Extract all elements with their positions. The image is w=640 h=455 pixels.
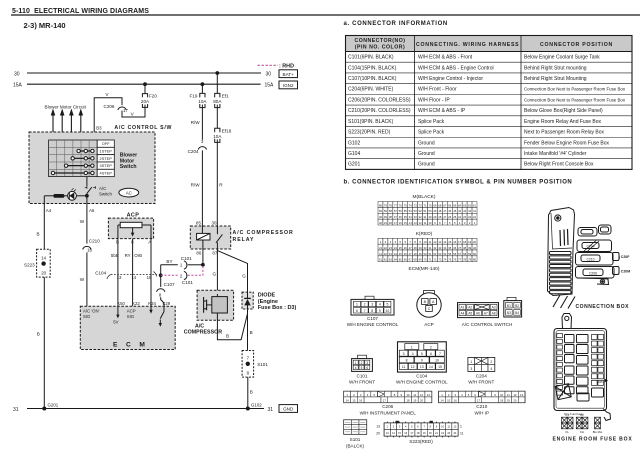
svg-text:39: 39 [384, 215, 387, 219]
A/C compressor box [184, 290, 234, 335]
A/C control switch assembly box [29, 125, 172, 204]
svg-text:S101(9PIN. BLACK): S101(9PIN. BLACK) [348, 119, 394, 125]
fuse Ef18 10A [213, 108, 231, 143]
svg-text:10: 10 [406, 393, 410, 397]
svg-text:(PIN NO. COLOR): (PIN NO. COLOR) [355, 45, 405, 51]
fuse F20 20A [141, 84, 157, 107]
svg-text:17: 17 [477, 398, 481, 402]
svg-text:C107: C107 [367, 316, 378, 321]
svg-text:20: 20 [379, 221, 382, 225]
svg-text:S223(RED): S223(RED) [409, 439, 433, 444]
svg-text:45: 45 [399, 252, 402, 256]
svg-text:60: 60 [379, 209, 382, 213]
svg-text:59: 59 [384, 209, 387, 213]
svg-text:42: 42 [384, 252, 387, 256]
svg-text:14: 14 [346, 398, 350, 402]
relay contact [216, 226, 222, 249]
label ECM(MR-140) [409, 266, 440, 272]
svg-text:78: 78 [463, 258, 466, 262]
engine room fuse box relays below [562, 413, 603, 434]
svg-text:77: 77 [458, 258, 461, 262]
svg-text:13: 13 [420, 365, 424, 369]
svg-text:15: 15 [404, 221, 407, 225]
svg-text:2: 2 [364, 303, 366, 307]
svg-text:17: 17 [394, 221, 397, 225]
connector M(BLACK) ECM pin grid [378, 194, 477, 225]
svg-text:12: 12 [513, 393, 517, 397]
svg-text:Splice Pack: Splice Pack [418, 130, 445, 136]
svg-text:79: 79 [468, 258, 471, 262]
ground G102 junction [246, 403, 262, 411]
svg-text:67: 67 [409, 258, 412, 262]
svg-text:31: 31 [424, 215, 427, 219]
blower motor circuit label [45, 104, 87, 109]
wire BY from junction through C101 pin1 [159, 259, 203, 277]
svg-text:35: 35 [404, 215, 407, 219]
svg-text:12: 12 [420, 393, 424, 397]
svg-text:C206(20PIN. COLORLESS): C206(20PIN. COLORLESS) [348, 97, 411, 103]
svg-text:16: 16 [453, 240, 456, 244]
svg-text:3: 3 [371, 303, 373, 307]
svg-text:29: 29 [433, 215, 436, 219]
svg-text:52: 52 [419, 209, 422, 213]
svg-text:W/H ECM & ABS - Engine Control: W/H ECM & ABS - Engine Control [418, 65, 494, 71]
svg-text:72: 72 [433, 258, 436, 262]
svg-text:B1: B1 [507, 304, 511, 308]
svg-text:14: 14 [440, 398, 444, 402]
svg-text:30: 30 [428, 215, 431, 219]
svg-text:1: 1 [356, 303, 358, 307]
svg-text:54: 54 [409, 209, 412, 213]
svg-text:72: 72 [419, 203, 422, 207]
svg-text:Connection Box Next to Passeng: Connection Box Next to Passenger Room Fu… [524, 87, 626, 92]
svg-text:61: 61 [473, 203, 476, 207]
svg-text:31: 31 [428, 246, 431, 250]
svg-text:27: 27 [409, 246, 412, 250]
svg-text:64: 64 [458, 203, 461, 207]
engine room fuse box label [553, 437, 633, 443]
connector B1-B4 drawing [504, 297, 522, 317]
svg-text:ECM(MR-140): ECM(MR-140) [409, 266, 440, 272]
svg-text:11: 11 [402, 365, 406, 369]
svg-text:K2: K2 [580, 413, 584, 417]
svg-text:56: 56 [399, 209, 402, 213]
junction on 15A at F20 [143, 82, 147, 86]
wire RY (ACP C to ECM K22) [125, 239, 133, 307]
svg-text:47: 47 [409, 252, 412, 256]
wire R/W from C204 to relay 85 [191, 150, 203, 226]
connector C104 drawing [396, 342, 448, 385]
svg-text:C107(10PIN. BLACK): C107(10PIN. BLACK) [348, 76, 397, 82]
A/C push switch [85, 186, 113, 196]
svg-text:A6: A6 [476, 312, 480, 316]
svg-text:80: 80 [473, 258, 476, 262]
svg-text:2: 2 [430, 345, 432, 349]
resistor (LED series) [44, 194, 67, 198]
svg-text:A5: A5 [468, 312, 472, 316]
blower motor switch grid [49, 140, 98, 177]
svg-text:32: 32 [433, 246, 436, 250]
svg-text:A7: A7 [484, 312, 488, 316]
svg-text:W/H ECM & ABS - IP: W/H ECM & ABS - IP [418, 108, 466, 114]
svg-text:40: 40 [473, 246, 476, 250]
svg-text:68: 68 [414, 258, 417, 262]
wire 86 to junction [201, 249, 205, 267]
svg-text:65: 65 [453, 203, 456, 207]
svg-text:C210: C210 [476, 404, 487, 409]
svg-text:W/H ENGINE CONTROL: W/H ENGINE CONTROL [347, 322, 399, 327]
svg-text:1: 1 [411, 345, 413, 349]
svg-text:Intake Manifold '#4' Cylinder: Intake Manifold '#4' Cylinder [524, 151, 587, 157]
svg-text:1: 1 [460, 425, 462, 429]
connector C101 pin 1 [180, 256, 192, 269]
svg-text:A1: A1 [460, 306, 464, 310]
ECM internal A/C ON SIG [83, 308, 100, 319]
connector C210 pin 16 [83, 239, 101, 253]
svg-text:26: 26 [404, 246, 407, 250]
page header title [11, 8, 640, 15]
svg-text:Ground: Ground [418, 140, 435, 146]
svg-text:14: 14 [429, 365, 433, 369]
svg-text:40: 40 [379, 215, 382, 219]
svg-text:G102: G102 [348, 140, 360, 146]
ECM internal 5V arrow [113, 306, 119, 324]
svg-text:Ground: Ground [418, 162, 435, 168]
svg-text:60: 60 [473, 252, 476, 256]
blower switch contacts 1STEP [77, 149, 94, 152]
svg-text:70: 70 [424, 258, 427, 262]
svg-text:63: 63 [389, 258, 392, 262]
svg-text:69: 69 [433, 203, 436, 207]
svg-text:4: 4 [490, 367, 492, 371]
svg-text:63: 63 [463, 203, 466, 207]
ECM box [80, 306, 175, 349]
connector C204 pin 3 [188, 139, 207, 154]
junction at A6 branch [85, 194, 89, 198]
svg-text:80: 80 [379, 203, 382, 207]
svg-text:12: 12 [433, 240, 436, 244]
svg-text:74: 74 [443, 258, 446, 262]
svg-text:18: 18 [500, 398, 504, 402]
svg-text:17: 17 [383, 398, 387, 402]
svg-text:39: 39 [468, 246, 471, 250]
svg-text:Next to Passenger Room Relay B: Next to Passenger Room Relay Box [524, 130, 605, 136]
svg-text:Behind Right Strut Mounting: Behind Right Strut Mounting [524, 76, 587, 82]
svg-text:C20F: C20F [621, 255, 630, 259]
blower motor switch label [120, 153, 137, 171]
svg-text:4: 4 [355, 366, 357, 370]
svg-text:5: 5 [386, 303, 388, 307]
svg-text:Ab5: Ab5 [598, 380, 603, 384]
ECM pin K22 [132, 301, 140, 306]
connection box illustration [548, 208, 631, 309]
connector information table [346, 36, 633, 170]
connector C206 drawing [344, 391, 432, 415]
section title 2-3) MR-140 [24, 21, 66, 30]
ECM internal K34 ground arrow [149, 306, 152, 313]
svg-text:a. CONNECTOR INFORMATION: a. CONNECTOR INFORMATION [344, 21, 448, 27]
svg-text:10: 10 [500, 393, 504, 397]
svg-text:48: 48 [438, 209, 441, 213]
svg-text:W/H Floor - IP: W/H Floor - IP [418, 97, 450, 103]
svg-text:B4: B4 [515, 311, 519, 315]
svg-text:18: 18 [463, 240, 466, 244]
svg-text:Behind Right Strut mounting: Behind Right Strut mounting [524, 65, 587, 71]
svg-text:1: 1 [470, 360, 472, 364]
svg-text:77: 77 [394, 203, 397, 207]
svg-text:34: 34 [409, 215, 412, 219]
svg-text:65: 65 [399, 258, 402, 262]
svg-text:ENGINE ROOM FUSE BOX: ENGINE ROOM FUSE BOX [553, 437, 633, 443]
svg-text:19: 19 [468, 240, 471, 244]
svg-text:A8: A8 [492, 312, 496, 316]
svg-text:36: 36 [453, 246, 456, 250]
svg-text:46: 46 [404, 252, 407, 256]
pin A6 wire [80, 196, 95, 244]
svg-text:K(RED): K(RED) [416, 231, 433, 237]
svg-text:3: 3 [366, 361, 368, 365]
connector C107 drawing [347, 296, 399, 327]
relay coil [197, 226, 210, 249]
svg-text:24: 24 [458, 215, 461, 219]
svg-text:C101(6PIN. BLACK): C101(6PIN. BLACK) [348, 55, 394, 61]
svg-text:18: 18 [406, 398, 410, 402]
svg-text:62: 62 [384, 258, 387, 262]
svg-text:6: 6 [430, 352, 432, 356]
svg-text:13: 13 [427, 393, 431, 397]
wire 5bB (ACP B to ECM K50) [111, 239, 119, 307]
svg-text:6: 6 [356, 309, 358, 313]
svg-text:4: 4 [412, 352, 414, 356]
arrow blower motor wire 3 [69, 109, 74, 141]
blower switch contacts 2STEP [71, 157, 94, 160]
svg-text:51: 51 [428, 252, 431, 256]
junction on 15A at F19 [201, 82, 205, 86]
splice S101 [242, 351, 268, 378]
wire B compressor to diode cathode [217, 313, 247, 340]
splice S223 [24, 249, 50, 277]
svg-text:12: 12 [419, 221, 422, 225]
svg-text:55: 55 [448, 252, 451, 256]
svg-text:CONNECTOR POSITION: CONNECTOR POSITION [540, 42, 613, 48]
svg-text:34: 34 [443, 246, 446, 250]
svg-text:51: 51 [424, 209, 427, 213]
wire OrB (ACP A to ECM K34) [134, 239, 151, 307]
junction on 30 at Ef1 [215, 71, 219, 75]
svg-text:44: 44 [458, 209, 461, 213]
svg-text:A4: A4 [460, 312, 464, 316]
svg-text:B3: B3 [507, 311, 511, 315]
blower switch contacts 4STEP [51, 171, 94, 174]
svg-text:4: 4 [379, 303, 381, 307]
svg-text:35: 35 [448, 246, 451, 250]
svg-text:Fender Below Engine Room Fuse: Fender Below Engine Room Fuse Box [524, 140, 610, 146]
svg-text:28: 28 [414, 246, 417, 250]
fuse F19 10A [190, 84, 208, 107]
ECM pin K29 [163, 301, 171, 306]
svg-text:41: 41 [379, 252, 382, 256]
svg-text:KL: KL [565, 430, 569, 434]
svg-text:33: 33 [414, 215, 417, 219]
svg-text:30: 30 [424, 246, 427, 250]
connector K(RED) ECM pin grid [378, 231, 477, 262]
svg-text:20: 20 [376, 431, 380, 435]
svg-text:10: 10 [435, 359, 439, 363]
svg-text:Engine Room Relay And Fuse Box: Engine Room Relay And Fuse Box [524, 119, 601, 125]
connector C104 dashed gang line pins 13 14 15 [95, 271, 157, 281]
svg-text:36: 36 [399, 215, 402, 219]
svg-text:Below Glove Box(Right Side Pan: Below Glove Box(Right Side Panel) [524, 108, 603, 114]
svg-text:10: 10 [428, 221, 431, 225]
svg-text:75: 75 [448, 258, 451, 262]
svg-text:33: 33 [438, 246, 441, 250]
node IGN2 [279, 81, 298, 89]
svg-text:W/H FRONT: W/H FRONT [468, 379, 494, 384]
svg-text:21: 21 [473, 215, 476, 219]
svg-text:2: 2 [490, 360, 492, 364]
svg-text:13: 13 [414, 221, 417, 225]
svg-text:50: 50 [428, 209, 431, 213]
svg-text:73: 73 [414, 203, 417, 207]
svg-text:C210(20PIN. COLORLESS): C210(20PIN. COLORLESS) [348, 108, 411, 114]
svg-text:23: 23 [463, 215, 466, 219]
wire G branch to diode [217, 251, 247, 293]
svg-text:76: 76 [453, 258, 456, 262]
svg-text:K1: K1 [565, 413, 569, 417]
svg-text:C206: C206 [589, 271, 597, 275]
svg-text:12: 12 [411, 365, 415, 369]
svg-text:ACP: ACP [424, 322, 433, 327]
svg-text:W/H INSTRUMENT PANEL: W/H INSTRUMENT PANEL [360, 411, 417, 416]
svg-text:46: 46 [448, 209, 451, 213]
svg-text:1: 1 [355, 361, 357, 365]
svg-text:75: 75 [404, 203, 407, 207]
svg-text:16: 16 [399, 221, 402, 225]
svg-text:55: 55 [404, 209, 407, 213]
node GND [279, 405, 298, 413]
svg-text:68: 68 [438, 203, 441, 207]
wire C107 to ECM K29 [161, 297, 164, 306]
svg-text:Below Engine Coolant Surge Tan: Below Engine Coolant Surge Tank [524, 55, 600, 61]
connector A/C control switch drawing [458, 303, 513, 328]
wire R/W from F19 to C204 [191, 108, 203, 140]
wire 30 bus [14, 71, 271, 77]
svg-text:13: 13 [376, 425, 380, 429]
svg-text:50: 50 [424, 252, 427, 256]
wire 15A bus [13, 83, 274, 89]
wire B from S223 to ground bus [37, 277, 45, 408]
wire V from C206 to pin B3 [94, 92, 122, 140]
svg-text:57: 57 [458, 252, 461, 256]
svg-text:58: 58 [389, 209, 392, 213]
svg-text:66: 66 [448, 203, 451, 207]
svg-text:C: C [428, 307, 431, 311]
svg-text:58: 58 [463, 252, 466, 256]
engine room fuse box illustration [554, 314, 611, 421]
svg-text:S223(20PIN. RED): S223(20PIN. RED) [348, 130, 391, 136]
svg-text:66: 66 [404, 258, 407, 262]
svg-text:27: 27 [443, 215, 446, 219]
svg-text:B2: B2 [515, 304, 519, 308]
svg-text:C104: C104 [416, 373, 427, 378]
svg-text:16: 16 [454, 398, 458, 402]
svg-text:56: 56 [453, 252, 456, 256]
svg-text:47: 47 [443, 209, 446, 213]
connector ACP drawing [417, 291, 441, 328]
svg-text:5: 5 [421, 352, 423, 356]
svg-text:43: 43 [389, 252, 392, 256]
svg-text:S101: S101 [350, 437, 361, 442]
svg-text:C104(15PIN. BLACK): C104(15PIN. BLACK) [348, 65, 397, 71]
svg-text:9: 9 [421, 359, 423, 363]
svg-text:W/H FRONT: W/H FRONT [349, 379, 375, 384]
svg-text:32: 32 [419, 215, 422, 219]
svg-text:28: 28 [438, 215, 441, 219]
svg-text:15: 15 [352, 398, 356, 402]
svg-text:53: 53 [438, 252, 441, 256]
svg-text:16: 16 [359, 398, 363, 402]
svg-text:69: 69 [419, 258, 422, 262]
AC indicator oval [119, 188, 139, 197]
svg-text:21: 21 [379, 246, 382, 250]
connector C206 pin 17 [104, 104, 129, 113]
wire compressor through [216, 294, 218, 297]
wire B S101 to G102 [248, 377, 253, 408]
svg-text:11: 11 [460, 431, 464, 435]
svg-text:8: 8 [371, 309, 373, 313]
svg-text:48: 48 [414, 252, 417, 256]
ACP sensor box [108, 213, 153, 245]
svg-text:49: 49 [419, 252, 422, 256]
svg-text:W/H ECM & ABS - Front: W/H ECM & ABS - Front [418, 55, 473, 61]
svg-text:3: 3 [470, 367, 472, 371]
svg-text:W/H IP: W/H IP [475, 411, 490, 416]
svg-text:61: 61 [379, 258, 382, 262]
wire B diode to S101 [248, 309, 253, 351]
wire V from F20 to C206 [122, 107, 145, 117]
svg-text:22: 22 [384, 246, 387, 250]
svg-text:C206: C206 [382, 404, 393, 409]
svg-text:37: 37 [394, 215, 397, 219]
ECM internal K29 switch to ground [159, 306, 164, 327]
svg-text:71: 71 [424, 203, 427, 207]
svg-text:26: 26 [448, 215, 451, 219]
svg-text:29: 29 [419, 246, 422, 250]
svg-text:10: 10 [386, 309, 390, 313]
svg-text:14: 14 [443, 240, 446, 244]
svg-text:CONNECTION BOX: CONNECTION BOX [576, 304, 630, 310]
svg-text:11: 11 [413, 393, 416, 397]
svg-text:20: 20 [473, 240, 476, 244]
svg-text:54: 54 [443, 252, 446, 256]
svg-text:Ground: Ground [418, 151, 435, 157]
svg-text:A3: A3 [492, 306, 496, 310]
connector C204 drawing [468, 358, 495, 385]
svg-text:15: 15 [438, 365, 442, 369]
svg-text:11: 11 [424, 221, 427, 225]
LED indicator [68, 188, 77, 200]
svg-text:14: 14 [409, 221, 412, 225]
blower switch contacts 3STEP [64, 164, 94, 167]
svg-text:42: 42 [468, 209, 471, 213]
svg-text:13: 13 [438, 240, 441, 244]
svg-text:M(BLACK): M(BLACK) [413, 194, 436, 200]
svg-text:53: 53 [414, 209, 417, 213]
svg-text:15: 15 [447, 398, 451, 402]
svg-text:19: 19 [384, 221, 387, 225]
svg-text:76: 76 [399, 203, 402, 207]
wire from blower grid to A/C switch [86, 177, 88, 187]
